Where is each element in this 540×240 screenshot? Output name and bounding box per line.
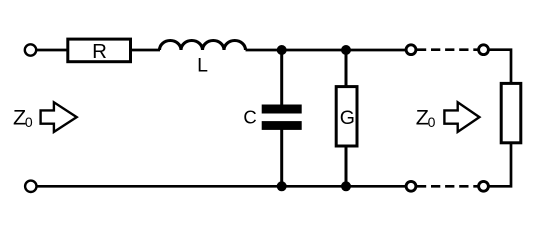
capacitor C top lead wire — [280, 50, 283, 106]
terminal right top inner (open circle) — [406, 45, 416, 55]
junction node top of C — [277, 45, 287, 55]
wire load bottom corner — [489, 143, 511, 187]
capacitor C bottom lead wire — [280, 129, 283, 186]
junction node top of G — [341, 45, 351, 55]
svg-text:R: R — [92, 40, 107, 63]
inductor L — [160, 41, 246, 51]
svg-text:Z0: Z0 — [416, 105, 436, 130]
dashed wire bottom — [417, 185, 478, 188]
junction node bottom of C — [277, 181, 287, 191]
wire input to R — [37, 49, 67, 52]
wire right top corner to load — [489, 50, 511, 84]
resistor R — [68, 39, 131, 62]
load resistor (termination) — [501, 83, 521, 142]
terminal P1 top (input, open circle) — [25, 44, 36, 55]
terminal P1 bottom (input, open circle) — [25, 181, 36, 192]
capacitor C top plate — [262, 105, 302, 114]
dashed wire top — [417, 48, 478, 51]
junction node bottom of G — [341, 181, 351, 191]
capacitor C bottom plate — [262, 121, 302, 130]
svg-text:Z0: Z0 — [13, 105, 33, 130]
svg-text:C: C — [243, 106, 256, 127]
conductance G bottom lead wire — [345, 146, 348, 186]
arrow Z0 left (block arrow) — [41, 102, 77, 132]
terminal right bottom inner (open circle) — [406, 181, 416, 191]
conductance G top lead wire — [345, 50, 348, 87]
wire top rail L to right port — [246, 49, 406, 52]
terminal right top outer (open circle) — [479, 45, 489, 55]
svg-text:G: G — [340, 107, 355, 129]
arrow Z0 right (block arrow) — [444, 102, 479, 132]
terminal right bottom outer (open circle) — [479, 181, 489, 191]
svg-text:L: L — [197, 55, 208, 77]
wire R to L — [131, 49, 160, 52]
conductance G box — [336, 87, 357, 146]
wire bottom rail — [37, 185, 405, 188]
